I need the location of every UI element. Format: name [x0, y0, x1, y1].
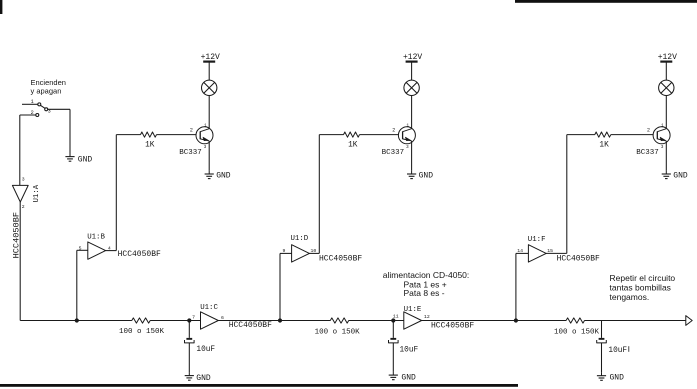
resistor R1 1K: [141, 132, 157, 150]
wire bottom bus: [20, 320, 686, 322]
capacitor C2 10uF: [389, 321, 419, 372]
svg-text:BC337: BC337: [382, 149, 405, 157]
wire lamp to +12V: [411, 62, 413, 80]
ground GND1 (switch): [65, 153, 92, 164]
wire U1:D input from bus riser: [280, 253, 292, 320]
svg-text:2: 2: [190, 127, 193, 133]
svg-text:10uF: 10uF: [608, 347, 627, 355]
resistor R2 100 o 150K (stage 1): [119, 318, 165, 336]
svg-text:HCC4050BF: HCC4050BF: [557, 255, 600, 264]
buffer U1:C: [192, 304, 224, 329]
wire U1:A output down to bus: [19, 202, 21, 321]
svg-text:2: 2: [31, 110, 34, 116]
wire collector of Q1 to lamp: [208, 95, 210, 128]
ground GND7 (Q3 emitter): [662, 171, 688, 181]
svg-text:2: 2: [392, 127, 395, 133]
transistor Q2 BC337: [382, 124, 416, 157]
svg-text:U1:B: U1:B: [87, 233, 105, 241]
svg-text:Pata 8 es -: Pata 8 es -: [404, 288, 445, 298]
svg-text:U1:A: U1:A: [33, 184, 41, 202]
label HCC4050BF (U1:B): [118, 250, 161, 259]
buffer U1:B: [79, 233, 111, 259]
svg-text:BC337: BC337: [636, 149, 659, 157]
buffer U1:A (inverter oriented down): [12, 177, 41, 210]
power +12V (Q1 stage): [201, 53, 220, 62]
lamp DS3: [659, 80, 674, 95]
svg-text:y apagan: y apagan: [31, 87, 62, 96]
node junction U1:B input riser: [75, 319, 78, 322]
wire U1:B output riser to R1: [105, 135, 140, 251]
ground GND6 (C2): [389, 372, 416, 382]
svg-text:GND: GND: [401, 373, 416, 382]
capacitor C1 10uF: [185, 321, 216, 373]
switch SW1 "Encienden y apagan": [20, 78, 66, 117]
power +12V (Q2 stage): [403, 53, 422, 62]
svg-text:GND: GND: [216, 172, 231, 181]
svg-text:100 o 150K: 100 o 150K: [554, 328, 600, 336]
svg-text:1K: 1K: [599, 142, 609, 150]
ground GND5 (Q2 emitter): [407, 171, 433, 181]
svg-text:6: 6: [221, 315, 224, 321]
buffer U1:F: [517, 236, 553, 262]
svg-text:tengamos.: tengamos.: [610, 292, 650, 302]
ground GND8 (C3): [597, 373, 624, 383]
wire base to Q2: [360, 134, 399, 136]
wire U1:F input from bus riser: [516, 253, 529, 320]
svg-text:BC337: BC337: [179, 149, 202, 157]
wire U1:B input from bus riser: [77, 250, 88, 320]
resistor R3 1K: [344, 132, 360, 150]
node junction C1 / U1:C input: [188, 319, 191, 322]
svg-text:+12V: +12V: [403, 53, 422, 62]
svg-text:HCC4050BF: HCC4050BF: [431, 322, 474, 331]
svg-text:10uF: 10uF: [400, 346, 419, 354]
wire lamp to +12V: [665, 62, 667, 80]
capacitor C3 10uF: [597, 321, 629, 373]
svg-text:1K: 1K: [348, 142, 358, 150]
wire base to Q1: [157, 134, 197, 136]
node junction U1:F input riser: [514, 319, 517, 322]
node junction U1:D input riser: [278, 319, 281, 322]
buffer U1:D: [283, 235, 317, 262]
label HCC4050BF (U1:C): [229, 321, 272, 330]
wire emitter of Q3 to ground: [665, 141, 667, 171]
svg-text:GND: GND: [673, 172, 688, 181]
wire U1:D output riser to R3: [309, 135, 343, 254]
svg-text:11: 11: [393, 314, 399, 320]
svg-text:Repetir el circuito: Repetir el circuito: [610, 273, 676, 283]
wire emitter of Q2 to ground: [411, 141, 413, 171]
resistor R6 100 o 150K (stage 3): [554, 318, 600, 337]
svg-text:U1:D: U1:D: [291, 235, 309, 243]
svg-text:tantas bombillas: tantas bombillas: [610, 283, 671, 293]
wire collector of Q3 to lamp: [665, 95, 667, 128]
svg-text:U1:F: U1:F: [528, 236, 546, 244]
svg-text:1K: 1K: [145, 142, 155, 150]
transistor Q3 BC337: [636, 124, 670, 157]
wire base to Q3: [611, 134, 653, 136]
ground GND4 (C1): [185, 372, 211, 383]
wire emitter of Q1 to ground: [208, 141, 210, 171]
svg-text:GND: GND: [78, 156, 93, 165]
wire switch pin3 to ground: [48, 109, 70, 156]
svg-text:2: 2: [22, 204, 25, 210]
transistor Q1 BC337: [179, 124, 213, 157]
resistor R5 1K: [595, 132, 611, 150]
svg-text:GND: GND: [419, 172, 434, 181]
wire U1:F output riser to R5: [546, 135, 595, 254]
svg-text:7: 7: [192, 315, 195, 321]
label HCC4050BF (U1:D): [319, 255, 362, 264]
svg-text:1: 1: [31, 99, 34, 105]
svg-text:10uF: 10uF: [196, 346, 215, 354]
node junction C2 / U1:E input: [392, 319, 395, 322]
label HCC4050BF (U1:F): [557, 255, 600, 264]
svg-text:12: 12: [424, 314, 430, 320]
svg-text:2: 2: [647, 127, 650, 133]
svg-text:3: 3: [22, 177, 25, 183]
wire lamp to +12V: [208, 62, 210, 80]
wire switch pin2 to U1:A input: [19, 115, 21, 185]
arrow bus continuation: [686, 316, 692, 326]
power +12V (Q3 stage): [658, 53, 677, 62]
resistor R4 100 o 150K (stage 2): [315, 318, 361, 337]
svg-text:U1:C: U1:C: [200, 304, 218, 312]
note: alimentacion CD-4050: [383, 270, 469, 298]
svg-text:U1:E: U1:E: [404, 306, 422, 314]
svg-text:100 o 150K: 100 o 150K: [119, 328, 165, 336]
wire collector of Q2 to lamp: [411, 95, 413, 128]
label HCC4050BF (U1:E): [431, 322, 474, 331]
svg-text:HCC4050BF: HCC4050BF: [229, 321, 272, 330]
svg-text:100 o 150K: 100 o 150K: [315, 329, 361, 337]
label HCC4050BF (U1:A), rotated: [12, 212, 22, 258]
svg-text:HCC4050BF: HCC4050BF: [319, 255, 362, 264]
svg-text:+12V: +12V: [658, 53, 677, 62]
svg-text:GND: GND: [610, 374, 625, 383]
buffer U1:E: [393, 306, 430, 329]
ground GND2 (Q1 emitter): [205, 171, 231, 181]
lamp DS2: [404, 80, 419, 95]
svg-text:GND: GND: [196, 374, 211, 383]
svg-text:+12V: +12V: [201, 53, 220, 62]
svg-text:HCC4050BF: HCC4050BF: [118, 250, 161, 259]
note: repetir el circuito: [610, 273, 676, 302]
lamp DS1: [202, 80, 217, 95]
